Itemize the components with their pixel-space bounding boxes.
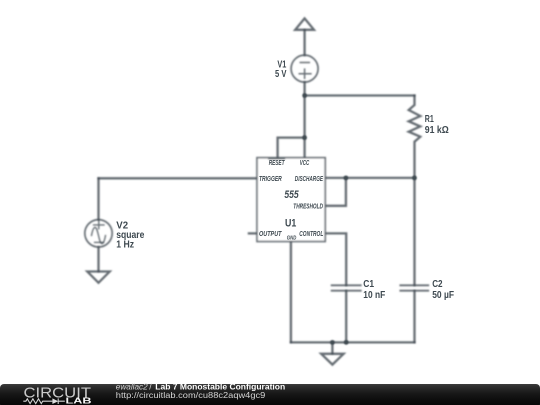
svg-text:VCC: VCC xyxy=(300,158,310,167)
svg-text:10 nF: 10 nF xyxy=(363,290,385,301)
svg-text:DISCHARGE: DISCHARGE xyxy=(295,174,323,183)
svg-text:OUTPUT: OUTPUT xyxy=(259,229,282,238)
svg-text:R1: R1 xyxy=(425,114,434,125)
svg-text:50 µF: 50 µF xyxy=(432,290,454,301)
svg-text:555: 555 xyxy=(284,189,299,201)
svg-text:GND: GND xyxy=(287,235,297,241)
svg-text:THRESHOLD: THRESHOLD xyxy=(293,202,323,211)
svg-text:http://circuitlab.com/cu88c2aq: http://circuitlab.com/cu88c2aqw4gc9 xyxy=(116,390,266,400)
svg-text:U1: U1 xyxy=(285,217,296,229)
svg-text:RESET: RESET xyxy=(269,158,285,167)
svg-text:LAB: LAB xyxy=(66,396,93,405)
svg-text:5 V: 5 V xyxy=(275,69,287,80)
svg-text:C1: C1 xyxy=(363,279,374,290)
svg-text:TRIGGER: TRIGGER xyxy=(259,174,282,183)
svg-text:C2: C2 xyxy=(432,279,442,290)
svg-text:CONTROL: CONTROL xyxy=(299,229,323,238)
svg-text:1 Hz: 1 Hz xyxy=(116,239,134,250)
svg-text:91 kΩ: 91 kΩ xyxy=(425,125,449,136)
